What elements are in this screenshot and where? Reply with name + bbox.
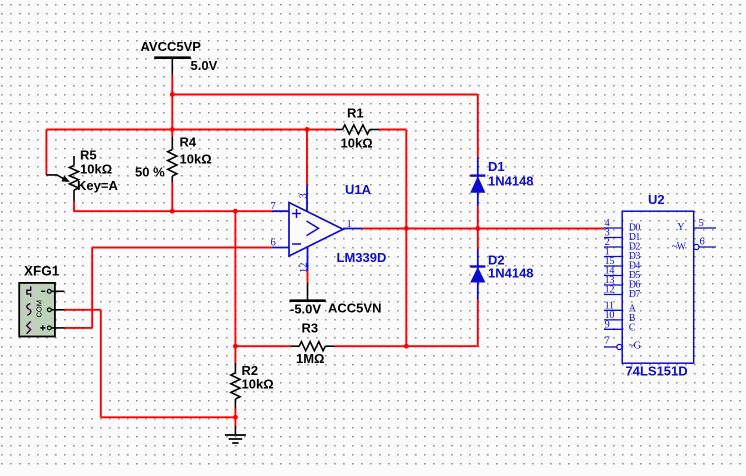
node pin3 tap	[305, 127, 310, 132]
wire R3 left	[235, 345, 291, 347]
wire D1 branch vertical upper	[477, 95, 479, 158]
svg-text:1: 1	[347, 219, 352, 230]
function generator XFG1	[19, 264, 64, 337]
wire power vertical	[171, 75, 173, 137]
node ground junction	[233, 415, 238, 420]
op-amp U1A LM339D	[271, 182, 387, 273]
pin 15 D4	[604, 265, 622, 267]
node R4 bottom	[170, 209, 175, 214]
pin 9 C	[604, 328, 622, 330]
svg-text:LM339D: LM339D	[337, 250, 387, 265]
pin 5 Y	[694, 227, 716, 229]
svg-text:R1: R1	[347, 106, 364, 121]
wire R5 bottom	[73, 202, 75, 212]
pin 4 D0	[604, 227, 622, 229]
wire R2 bottom	[234, 409, 236, 418]
svg-text:1N4148: 1N4148	[488, 174, 534, 189]
wire R3 right	[334, 345, 477, 347]
node output/diode branch	[475, 226, 480, 231]
svg-text:-5.0V: -5.0V	[290, 302, 321, 317]
node junction power/top	[170, 92, 175, 97]
pin 7 ~G	[604, 346, 617, 348]
diode D2 1N4148	[470, 249, 533, 300]
ground	[225, 426, 246, 443]
potentiometer R5 10k Key=A	[46, 148, 118, 202]
resistor R3 1M	[291, 321, 334, 367]
wire XFG plus to inverting input	[65, 327, 93, 329]
svg-text:5: 5	[699, 218, 704, 229]
pin 13 D6	[604, 284, 622, 286]
wire ground stub	[234, 417, 236, 426]
svg-text:12: 12	[605, 285, 615, 296]
pin 11 A	[604, 309, 622, 311]
svg-text:U1A: U1A	[345, 182, 372, 197]
svg-text:6: 6	[700, 237, 705, 248]
svg-text:5.0V: 5.0V	[191, 58, 218, 73]
svg-text:7: 7	[271, 201, 276, 212]
wire pin3 to bus	[306, 130, 308, 186]
wire R4 bottom	[171, 183, 173, 212]
multiplexer U2 74LS151D	[604, 192, 716, 379]
power AVCC5VP +5V	[141, 39, 218, 75]
wire pin12	[307, 271, 309, 284]
wire D2 upper	[477, 229, 479, 250]
svg-text:COM: COM	[35, 300, 44, 318]
svg-text:10kΩ: 10kΩ	[242, 377, 274, 392]
node R4 top	[170, 127, 175, 132]
svg-text:~G: ~G	[629, 340, 641, 351]
svg-text:AVCC5VP: AVCC5VP	[141, 39, 202, 54]
wire bus y=129.5	[46, 129, 336, 131]
svg-text:74LS151D: 74LS151D	[626, 364, 688, 379]
svg-text:7: 7	[605, 335, 610, 346]
node R3/R1 branch	[404, 344, 409, 349]
svg-text:9: 9	[605, 320, 610, 331]
resistor R1 10k horizontal	[336, 106, 379, 151]
wire R2 top	[234, 346, 236, 362]
wire top horizontal to D1	[172, 94, 478, 96]
svg-text:D7: D7	[629, 289, 641, 300]
wire output bus y=228.5	[362, 228, 604, 230]
resistor R2 10k	[231, 363, 274, 409]
pin 10 B	[604, 319, 622, 321]
node output/R1 branch	[404, 226, 409, 231]
wire pot left loop	[45, 130, 47, 176]
power ACC5VN -5V	[290, 283, 382, 317]
svg-text:ACC5VN: ACC5VN	[328, 301, 381, 316]
node R3/R2	[233, 344, 238, 349]
wire branch x=235.4 down	[234, 211, 236, 346]
wire R1 right vertical x=406.3	[405, 130, 407, 347]
svg-text:~W: ~W	[672, 242, 687, 253]
svg-text:1N4148: 1N4148	[488, 266, 534, 281]
svg-text:Y: Y	[677, 222, 684, 233]
svg-text:R4: R4	[180, 135, 197, 150]
wire D2 lower	[477, 300, 479, 347]
svg-text:R3: R3	[302, 321, 319, 336]
svg-text:C: C	[629, 323, 636, 334]
resistor R4 10k vertical	[168, 135, 212, 183]
svg-text:R5: R5	[80, 148, 97, 163]
wire noninverting input bus y=211	[74, 210, 272, 212]
pin 6 ~W	[694, 244, 699, 249]
pin 12 D7	[604, 294, 622, 296]
svg-text:3: 3	[298, 193, 309, 198]
pin 14 D5	[604, 275, 622, 277]
diode D1 1N4148	[470, 158, 533, 207]
svg-text:D1: D1	[488, 159, 505, 174]
svg-text:50 %: 50 %	[135, 165, 165, 180]
pin 3 D1	[604, 237, 622, 239]
svg-text:XFG1: XFG1	[24, 264, 60, 279]
wire XFG COM to ground bus	[65, 309, 101, 311]
svg-text:Key=A: Key=A	[77, 178, 118, 193]
svg-text:10kΩ: 10kΩ	[341, 136, 373, 151]
svg-text:10kΩ: 10kΩ	[80, 162, 112, 177]
pin 1 D3	[604, 256, 622, 258]
wire D1 lower	[477, 206, 479, 228]
node R2 branch top	[233, 209, 238, 214]
svg-text:1MΩ: 1MΩ	[296, 351, 324, 366]
svg-text:U2: U2	[648, 192, 665, 207]
svg-text:10kΩ: 10kΩ	[180, 152, 212, 167]
pin 2 D2	[604, 246, 622, 248]
